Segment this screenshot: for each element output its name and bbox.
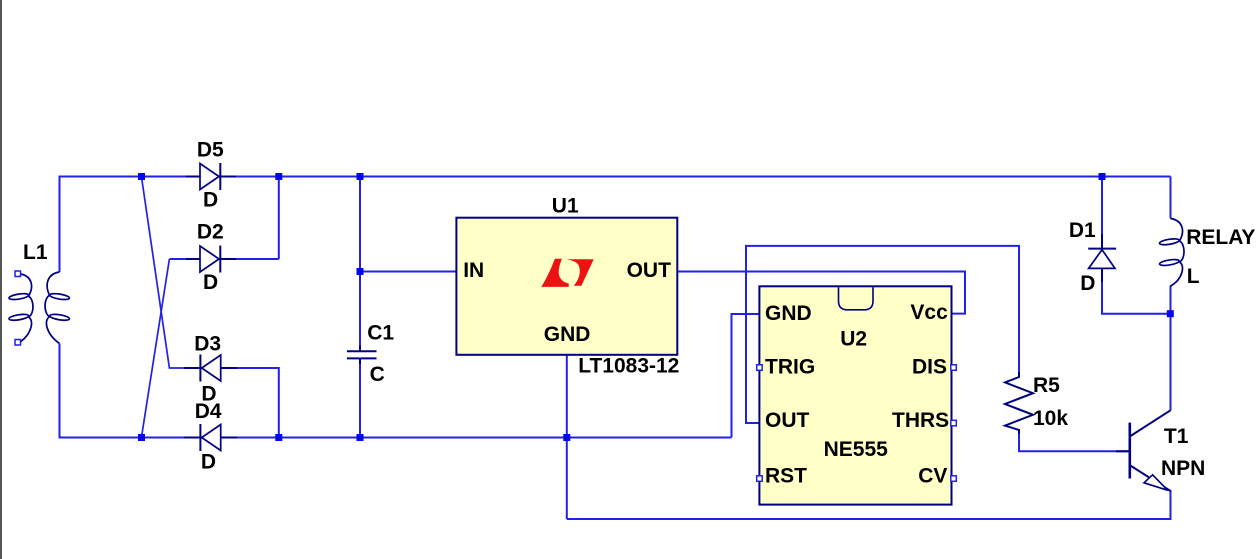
svg-text:D: D: [201, 451, 216, 474]
resistor R5: [1005, 372, 1033, 434]
diode D4: [184, 424, 237, 451]
svg-text:RST: RST: [765, 465, 807, 488]
transformer L1: [9, 272, 70, 344]
diode D2: [186, 246, 236, 273]
diode D3: [184, 355, 237, 382]
diode D1: [1088, 234, 1116, 282]
svg-text:C: C: [370, 363, 385, 386]
svg-text:D3: D3: [194, 333, 221, 356]
svg-text:TRIG: TRIG: [765, 356, 815, 379]
pin U2 RST: [757, 476, 763, 482]
node D2 top junction: [275, 173, 282, 180]
node D3/D4 junction: [275, 434, 282, 441]
svg-text:NE555: NE555: [824, 438, 889, 461]
pin U2 DIS: [951, 365, 957, 371]
svg-text:D4: D4: [195, 400, 222, 423]
wire diagonal D2 to bottom-junction: [142, 259, 170, 437]
wire left vertical top: [59, 176, 61, 273]
wire U2 OUT to R5: [746, 246, 1019, 423]
svg-text:T1: T1: [1164, 425, 1189, 448]
svg-text:GND: GND: [544, 323, 591, 346]
svg-text:L: L: [1187, 265, 1200, 288]
wire lower rail: [567, 490, 1171, 519]
svg-text:D: D: [203, 189, 218, 212]
node top-left bridge junction: [138, 173, 145, 180]
svg-text:U1: U1: [552, 195, 579, 218]
svg-text:C1: C1: [367, 322, 394, 345]
svg-text:DIS: DIS: [912, 356, 947, 379]
wire R5 to T1 base: [1019, 429, 1129, 451]
svg-text:GND: GND: [765, 302, 812, 325]
svg-text:D1: D1: [1069, 219, 1096, 242]
svg-text:D: D: [203, 271, 218, 294]
diode D5: [186, 163, 236, 190]
pin U2 CV: [951, 476, 957, 482]
svg-text:U2: U2: [840, 327, 867, 350]
pin U2 THRS: [951, 420, 957, 426]
svg-text:Vcc: Vcc: [910, 301, 948, 324]
IC U2 NE555 timer: [759, 286, 951, 504]
wire U2 GND: [732, 314, 760, 438]
node U1 GND junction: [563, 434, 570, 441]
svg-text:NPN: NPN: [1161, 457, 1205, 480]
wire top rail: [60, 176, 1171, 178]
wire cap column upper: [359, 177, 361, 352]
pin L1 primary bottom: [15, 340, 21, 346]
svg-text:OUT: OUT: [627, 259, 672, 282]
wire relay top: [1170, 177, 1172, 219]
node bottom-left bridge junction: [138, 434, 145, 441]
node cap top junction: [357, 173, 364, 180]
svg-text:R5: R5: [1033, 374, 1060, 397]
wire diagonal top-junction to D3: [142, 177, 202, 368]
svg-text:D5: D5: [197, 139, 224, 162]
wire D1 anode to relay bottom: [1102, 268, 1170, 313]
wire cap column lower: [359, 359, 361, 438]
svg-text:D: D: [1080, 272, 1095, 295]
node D1 top junction: [1099, 173, 1106, 180]
pin L1 primary top: [15, 271, 21, 277]
svg-text:L1: L1: [23, 241, 48, 264]
LT logo U1: [541, 259, 594, 287]
wire bottom rail: [59, 437, 732, 439]
node cap bottom junction: [357, 434, 364, 441]
pin U2 TRIG: [757, 365, 763, 371]
svg-text:LT1083-12: LT1083-12: [578, 354, 679, 377]
IC U1 LT1083-12 regulator: [456, 218, 677, 355]
svg-text:RELAY: RELAY: [1186, 226, 1255, 249]
node relay bottom junction: [1167, 310, 1174, 317]
wire U1 OUT to U2 Vcc: [677, 272, 965, 314]
capacitor C1: [347, 346, 377, 365]
relay coil: [1159, 219, 1184, 287]
transistor T1: [1116, 410, 1171, 491]
wire D2 cathode up: [169, 177, 278, 260]
svg-text:OUT: OUT: [765, 409, 810, 432]
wire D3 cathode down: [221, 368, 279, 438]
svg-text:THRS: THRS: [892, 409, 949, 432]
node U1 IN junction: [357, 268, 364, 275]
wire relay bottom / collector: [1170, 286, 1172, 411]
wire left vertical bottom: [59, 344, 61, 439]
wire U1 GND down: [566, 355, 568, 519]
wire D1 branch: [1101, 177, 1103, 249]
svg-text:IN: IN: [463, 259, 484, 282]
svg-text:D2: D2: [197, 221, 224, 244]
wire U1 IN: [360, 271, 456, 273]
svg-text:CV: CV: [918, 465, 947, 488]
svg-text:10k: 10k: [1033, 407, 1068, 430]
